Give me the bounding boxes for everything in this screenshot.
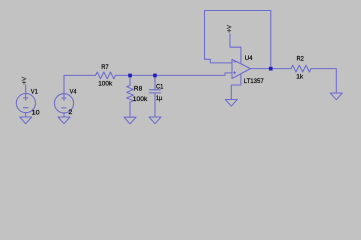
wire V4 top to main net bbox=[64, 75, 96, 100]
svg-text:R8: R8 bbox=[134, 86, 143, 93]
junction R8 tap bbox=[128, 74, 132, 78]
svg-text:V1: V1 bbox=[31, 89, 38, 96]
ground (V1) bbox=[20, 117, 32, 124]
wire R8 top bbox=[129, 75, 131, 85]
svg-text:LT1357: LT1357 bbox=[244, 78, 264, 85]
svg-text:1µ: 1µ bbox=[156, 95, 163, 102]
wire R2 to ground bbox=[311, 69, 336, 93]
resistor R7 bbox=[96, 72, 116, 79]
svg-text:V4: V4 bbox=[70, 89, 77, 96]
svg-text:U4: U4 bbox=[245, 55, 253, 62]
node V+ flag at op-amp (rotated text V+) bbox=[227, 25, 231, 32]
svg-text:R7: R7 bbox=[101, 64, 109, 71]
voltage source V1 bbox=[16, 94, 35, 113]
resistor R2 bbox=[291, 65, 311, 72]
ground (V4) bbox=[58, 117, 70, 124]
junction C1 tap bbox=[153, 74, 157, 78]
wire op-amp V- to ground bbox=[231, 74, 241, 100]
wire C1 top bbox=[154, 75, 156, 89]
svg-text:C1: C1 bbox=[156, 83, 164, 90]
svg-text:100k: 100k bbox=[133, 96, 148, 103]
ground (C1) bbox=[149, 117, 161, 124]
wire V4 bottom bbox=[63, 113, 65, 117]
voltage source V4 bbox=[54, 94, 73, 113]
op-amp U4 triangle bbox=[232, 59, 251, 78]
wire V1 bottom bbox=[25, 113, 27, 117]
ground (R8) bbox=[124, 117, 136, 124]
svg-text:1k: 1k bbox=[296, 73, 304, 80]
wire V1 top bbox=[25, 85, 27, 100]
capacitor C1 bbox=[149, 90, 160, 93]
ground (R2) bbox=[330, 93, 342, 100]
wire C1 bottom bbox=[154, 93, 156, 117]
wire op-amp output bbox=[251, 68, 292, 70]
wire R7 to opamp + input with step bbox=[116, 73, 233, 76]
op-amp input markers bbox=[234, 61, 236, 63]
svg-text:R2: R2 bbox=[297, 55, 305, 62]
resistor R8 bbox=[127, 85, 134, 102]
svg-text:100k: 100k bbox=[98, 80, 113, 87]
junction output node bbox=[269, 67, 273, 71]
wire R8 bottom bbox=[129, 102, 131, 117]
svg-text:10: 10 bbox=[32, 110, 40, 117]
ground (op-amp V-) bbox=[225, 100, 237, 107]
node V+ flag at V1 (rotated text V+) bbox=[22, 77, 26, 84]
svg-text:2: 2 bbox=[68, 109, 72, 116]
wire V+ flag to op-amp supply pin bbox=[230, 34, 241, 64]
feedback loop wire bbox=[205, 11, 271, 69]
